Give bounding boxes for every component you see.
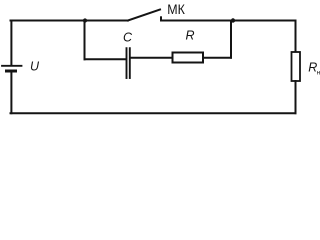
wire top-left segment	[11, 20, 129, 22]
capacitor C right plate	[129, 48, 131, 78]
wire right vertical upper	[295, 21, 297, 53]
switch MK fixed contact	[160, 17, 162, 20]
svg-text:U: U	[30, 60, 40, 74]
svg-text:н: н	[317, 69, 320, 76]
wire left vertical lower	[10, 73, 12, 114]
resistor Rn body	[292, 52, 301, 81]
svg-text:C: C	[123, 31, 133, 45]
wire resistor to right vertical	[203, 57, 231, 59]
wire capacitor to resistor	[131, 57, 173, 59]
wire branch right vertical	[230, 21, 232, 58]
wire top-right segment	[161, 20, 296, 22]
svg-text:МК: МК	[167, 1, 185, 17]
wire right vertical lower	[295, 81, 297, 113]
svg-text:R: R	[186, 29, 195, 43]
node junction left	[83, 18, 87, 22]
resistor R body	[173, 53, 204, 63]
node junction right	[231, 18, 235, 22]
wire bottom	[11, 112, 296, 114]
battery U long plate	[2, 65, 22, 67]
wire left vertical upper	[10, 21, 12, 66]
capacitor C left plate	[126, 48, 128, 78]
wire branch left vertical	[84, 21, 86, 60]
switch MK blade	[128, 10, 160, 21]
wire branch horizontal to capacitor	[85, 58, 127, 60]
battery U short plate	[7, 70, 16, 73]
